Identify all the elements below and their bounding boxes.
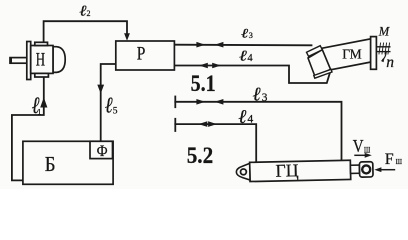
wire l3 top: P box to GM: [174, 44, 311, 47]
hydromotor GM body: [322, 39, 372, 70]
pump flange: [27, 42, 31, 80]
GM lower end plate: [314, 69, 332, 78]
svg-text:V: V: [353, 136, 364, 156]
rotation arrow: [382, 52, 386, 61]
svg-text:ℓ: ℓ: [239, 48, 247, 64]
pump bottom foot: [35, 73, 49, 77]
arrows l4 top (tips outward): [199, 63, 208, 69]
svg-text:ш: ш: [396, 155, 403, 167]
GC rod: [350, 165, 359, 173]
svg-text:ГМ: ГМ: [342, 47, 361, 62]
GM shaft: [376, 47, 390, 52]
cylinder GC body: [236, 159, 373, 182]
arrows l3 top (tips facing): [196, 42, 205, 48]
pump H: [10, 42, 66, 80]
svg-text:М: М: [378, 25, 390, 39]
GM right flange: [371, 37, 377, 70]
arrowhead into P (down): [124, 33, 130, 41]
svg-text:2: 2: [87, 9, 91, 18]
svg-text:F: F: [385, 151, 394, 168]
svg-text:3: 3: [262, 92, 268, 104]
pump shaft: [10, 58, 27, 64]
arrowhead l5 (down): [97, 85, 104, 94]
svg-text:4: 4: [247, 113, 253, 126]
svg-text:Ф: Ф: [97, 143, 108, 160]
wire l1: tank to pump suction: [12, 78, 44, 181]
wire l2: pump top to P box top: [44, 21, 127, 43]
valve P box: [116, 41, 175, 70]
wire l4 bottom: to cylinder left port: [175, 124, 256, 163]
GC clevis: [236, 163, 250, 180]
GC clevis eye: [240, 169, 246, 175]
arrow Vsh (right): [354, 154, 365, 156]
pump body: [31, 46, 53, 74]
arrowhead l1 (up): [40, 97, 47, 107]
wire l5: P box left to filter: [101, 64, 116, 141]
svg-text:5.1: 5.1: [191, 71, 216, 96]
GM shaft hatching: [379, 43, 390, 55]
svg-text:4: 4: [247, 53, 253, 64]
pump shaft end cap: [10, 57, 12, 63]
svg-text:Н: Н: [36, 50, 45, 71]
GC rod end block: [359, 162, 373, 177]
svg-text:ℓ: ℓ: [79, 3, 86, 19]
svg-text:5.2: 5.2: [187, 143, 214, 168]
svg-text:ГЦ: ГЦ: [275, 160, 298, 180]
tank B: [23, 141, 113, 184]
svg-text:ℓ: ℓ: [253, 85, 261, 106]
svg-text:n: n: [386, 54, 394, 71]
wire l4 top: P box to GM with step: [174, 66, 330, 84]
svg-text:1: 1: [37, 107, 41, 116]
arrow Fsh (left): [381, 169, 395, 171]
svg-text:5: 5: [113, 107, 118, 117]
svg-text:3: 3: [249, 30, 253, 40]
GM tilted block: [308, 50, 331, 77]
GM upper end plate: [307, 46, 323, 57]
pump cap: [53, 47, 65, 73]
svg-text:ℓ: ℓ: [238, 107, 246, 128]
pump top foot: [35, 42, 48, 45]
svg-text:Р: Р: [137, 43, 146, 64]
wire l3 bottom: to cylinder right port: [175, 102, 341, 163]
svg-text:Б: Б: [45, 152, 56, 176]
GC rod eye: [362, 165, 370, 173]
filter F box: [90, 141, 113, 158]
